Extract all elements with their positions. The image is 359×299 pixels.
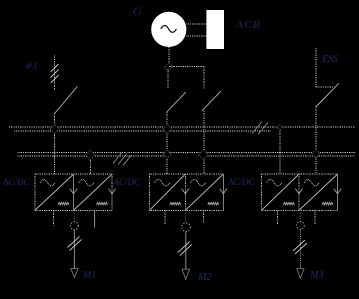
node gen T junction <box>165 63 173 71</box>
wire right feeder lower to box6 <box>315 107 317 174</box>
wire generator to block (upper) <box>186 23 206 25</box>
svg-text:M1: M1 <box>82 270 96 281</box>
arrow load 2 <box>182 269 189 279</box>
generator G1 circle <box>151 12 186 47</box>
node bus1 x box5 drop <box>277 125 282 130</box>
converter U3 diagonal <box>150 175 185 211</box>
wire load drop 1 <box>73 230 75 269</box>
converter U5 AC sine symbol <box>267 180 282 186</box>
breaker contact tick (right feeder) <box>316 86 334 88</box>
svg-text:G: G <box>133 4 142 18</box>
wire stub below box2 <box>94 211 96 228</box>
converter U1 output arrow <box>70 189 77 194</box>
converter U6 diagonal <box>299 175 337 211</box>
load circle 2 <box>182 223 191 232</box>
wire gen-right branch lower to box4 <box>203 111 205 174</box>
node bus2 x gen-right <box>198 150 208 160</box>
wire stub below box4 <box>203 211 205 223</box>
svg-text:AC/DC: AC/DC <box>113 177 142 187</box>
svg-text:#1: #1 <box>26 60 39 72</box>
converter U3 DC zigzag symbol <box>170 202 181 204</box>
wire generator stem down <box>168 47 170 66</box>
converter U6 AC sine symbol <box>304 180 319 186</box>
switch S1 blade (left feeder) <box>55 87 78 114</box>
wire gen-right branch upper <box>203 67 205 89</box>
three-phase ticks left feeder <box>51 64 59 83</box>
wire load drop 2 <box>185 232 187 269</box>
double slash load 2 <box>178 242 192 256</box>
converter pair frame U1/U2 <box>35 174 112 210</box>
svg-text:AC/DC: AC/DC <box>2 177 31 187</box>
wire bus1 to box5 <box>279 127 281 174</box>
bus2 upper line <box>18 152 355 154</box>
bus2 lower line <box>18 155 169 157</box>
converter pair frame U3/U4 <box>149 174 223 210</box>
converter U4 diagonal <box>186 175 223 211</box>
bus2 lower line right segment <box>204 155 355 157</box>
wire stub below box5 <box>276 211 278 225</box>
bus2 phase ticks <box>113 153 132 166</box>
wire bus2 to box2 <box>90 155 92 175</box>
converter U1 AC sine symbol <box>40 180 55 186</box>
wire right feeder upper <box>315 48 317 87</box>
svg-text:ACB: ACB <box>235 19 261 31</box>
double slash load 1 <box>68 237 82 251</box>
converter U4 output arrow <box>220 189 227 194</box>
bus1 lower line <box>14 130 271 132</box>
converter U4 AC sine symbol <box>191 180 206 186</box>
svg-text:M3: M3 <box>309 270 323 281</box>
wire T horizontal <box>169 66 204 68</box>
converter U2 DC zigzag symbol <box>97 202 108 204</box>
node bus1 x gen-left <box>163 124 172 133</box>
svg-text:ESS: ESS <box>321 54 338 65</box>
wire left feeder lower to box1 <box>54 114 56 175</box>
converter U2 diagonal <box>74 175 112 211</box>
wire shared edge to load circle 1 <box>73 210 75 222</box>
wire stub below box6 <box>314 211 316 226</box>
converter U5 DC zigzag symbol <box>283 202 294 204</box>
converter U6 DC zigzag symbol <box>322 202 333 204</box>
node bus1 x left feeder <box>50 124 59 133</box>
bus1 phase ticks <box>252 122 268 135</box>
arrow load 3 <box>297 269 304 279</box>
wire load drop 3 <box>299 229 301 268</box>
switch S2 blade (gen-left) <box>167 92 186 112</box>
converter U1 DC zigzag symbol <box>58 202 69 204</box>
bus1 upper line <box>9 126 355 128</box>
converter U3 AC sine symbol <box>155 180 170 186</box>
svg-text:AC/DC: AC/DC <box>227 177 256 187</box>
switch S3 blade (gen-right) <box>202 91 221 111</box>
converter U1 diagonal <box>35 175 73 211</box>
converter U3 output arrow <box>182 189 189 194</box>
block (filled rectangle) <box>206 10 224 49</box>
converter U5 diagonal <box>262 175 299 211</box>
wire stub below box3 <box>164 211 166 226</box>
wire left feeder upper <box>54 56 56 91</box>
converter U2 output arrow <box>108 189 115 194</box>
converter U4 DC zigzag symbol <box>208 202 219 204</box>
converter pair frame U5/U6 <box>262 174 338 210</box>
wire gen-left branch upper <box>167 69 169 89</box>
node bus2 x right feeder <box>312 150 320 158</box>
load circle 3 <box>297 222 305 230</box>
node bus2 x box2 drop <box>86 150 96 160</box>
svg-text:M2: M2 <box>197 272 211 283</box>
arrow load 1 <box>71 269 78 278</box>
double slash load 3 <box>293 240 307 254</box>
wire gen-left branch lower to box3 <box>166 112 168 174</box>
switch S4 blade (right feeder) <box>316 83 339 107</box>
wire generator to block (lower) <box>186 35 206 37</box>
load circle 1 <box>71 222 79 230</box>
wire shared edge to load circle 2 <box>185 210 187 223</box>
converter U2 AC sine symbol <box>79 180 94 186</box>
wire shared edge to load circle 3 <box>299 210 301 221</box>
wire stub below box1 <box>53 211 55 226</box>
node bus2 x gen-left <box>163 150 171 158</box>
converter U6 output arrow <box>334 189 341 194</box>
converter U5 output arrow <box>295 189 302 194</box>
